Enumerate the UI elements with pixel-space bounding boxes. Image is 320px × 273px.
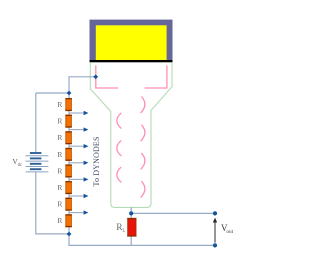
svg-text:R: R — [57, 183, 62, 192]
PMT envelope — [90, 62, 172, 207]
resistor R3 — [65, 132, 71, 144]
resistor R6 — [65, 181, 71, 193]
wire RL bottom lead — [130, 236, 132, 245]
svg-text:R: R — [57, 150, 62, 159]
label RL — [116, 223, 125, 234]
resistor R5 — [65, 165, 71, 177]
node anode — [129, 211, 133, 215]
svg-text:R: R — [57, 216, 62, 225]
dynode tap arrow 4 — [69, 161, 88, 165]
wire battery bottom lead — [36, 172, 69, 234]
dynode arc D4 — [117, 141, 122, 157]
resistor R2 — [65, 115, 71, 127]
wire bottom rail to Vout — [69, 234, 215, 245]
dynode tap arrow 3 — [69, 144, 88, 148]
label Vout — [221, 223, 234, 235]
Vout measurement arrow — [213, 218, 217, 243]
photocathode right bracket — [145, 65, 167, 88]
wire divider chain rail — [68, 93, 70, 234]
scintillator bottom face (black) — [90, 60, 173, 62]
dynode arc D1 — [141, 97, 145, 114]
svg-text:To DYNODES: To DYNODES — [92, 136, 101, 186]
node divider bottom — [67, 232, 72, 237]
dynode tap arrow 1 — [69, 111, 88, 115]
label V_dc — [12, 157, 22, 168]
node divider top — [67, 91, 72, 96]
svg-text:R: R — [57, 200, 62, 209]
resistor RL — [127, 218, 136, 236]
svg-text:R: R — [57, 133, 62, 142]
wire RL top lead — [130, 213, 132, 218]
svg-text:R: R — [57, 117, 62, 126]
dynode arc D6 — [117, 167, 122, 183]
resistor R8 — [65, 215, 71, 227]
scintillator crystal (yellow) — [96, 25, 167, 60]
dynode tap arrow 6 — [69, 194, 88, 198]
wire battery top to divider node — [36, 92, 69, 94]
svg-text:R: R — [57, 166, 62, 175]
dynode arc D2 — [117, 113, 122, 129]
dynode tap arrow 7 — [69, 210, 88, 214]
dynode arc D5 — [141, 153, 145, 170]
battery V_dc plates — [30, 153, 42, 169]
node photocathode — [93, 74, 98, 79]
svg-text:out: out — [226, 229, 233, 235]
wire battery top lead — [35, 93, 37, 153]
node Vout bottom — [213, 243, 217, 247]
svg-text:dc: dc — [18, 163, 22, 168]
wire anode to Vout — [131, 207, 215, 213]
resistor R4 — [65, 148, 71, 160]
dynode arc D3 — [141, 125, 145, 142]
svg-text:L: L — [122, 229, 125, 234]
svg-text:R: R — [57, 100, 62, 109]
scintillator block border — [90, 20, 173, 61]
photocathode left bracket — [96, 65, 118, 88]
wire divider top to photocathode — [69, 77, 96, 93]
resistor R7 — [65, 198, 71, 210]
resistor R1 — [65, 98, 71, 110]
dynode tap arrow 2 — [69, 127, 88, 131]
node Vout top — [213, 211, 217, 215]
dynode tap arrow 5 — [69, 177, 88, 181]
dynode arc D7 — [141, 181, 145, 198]
